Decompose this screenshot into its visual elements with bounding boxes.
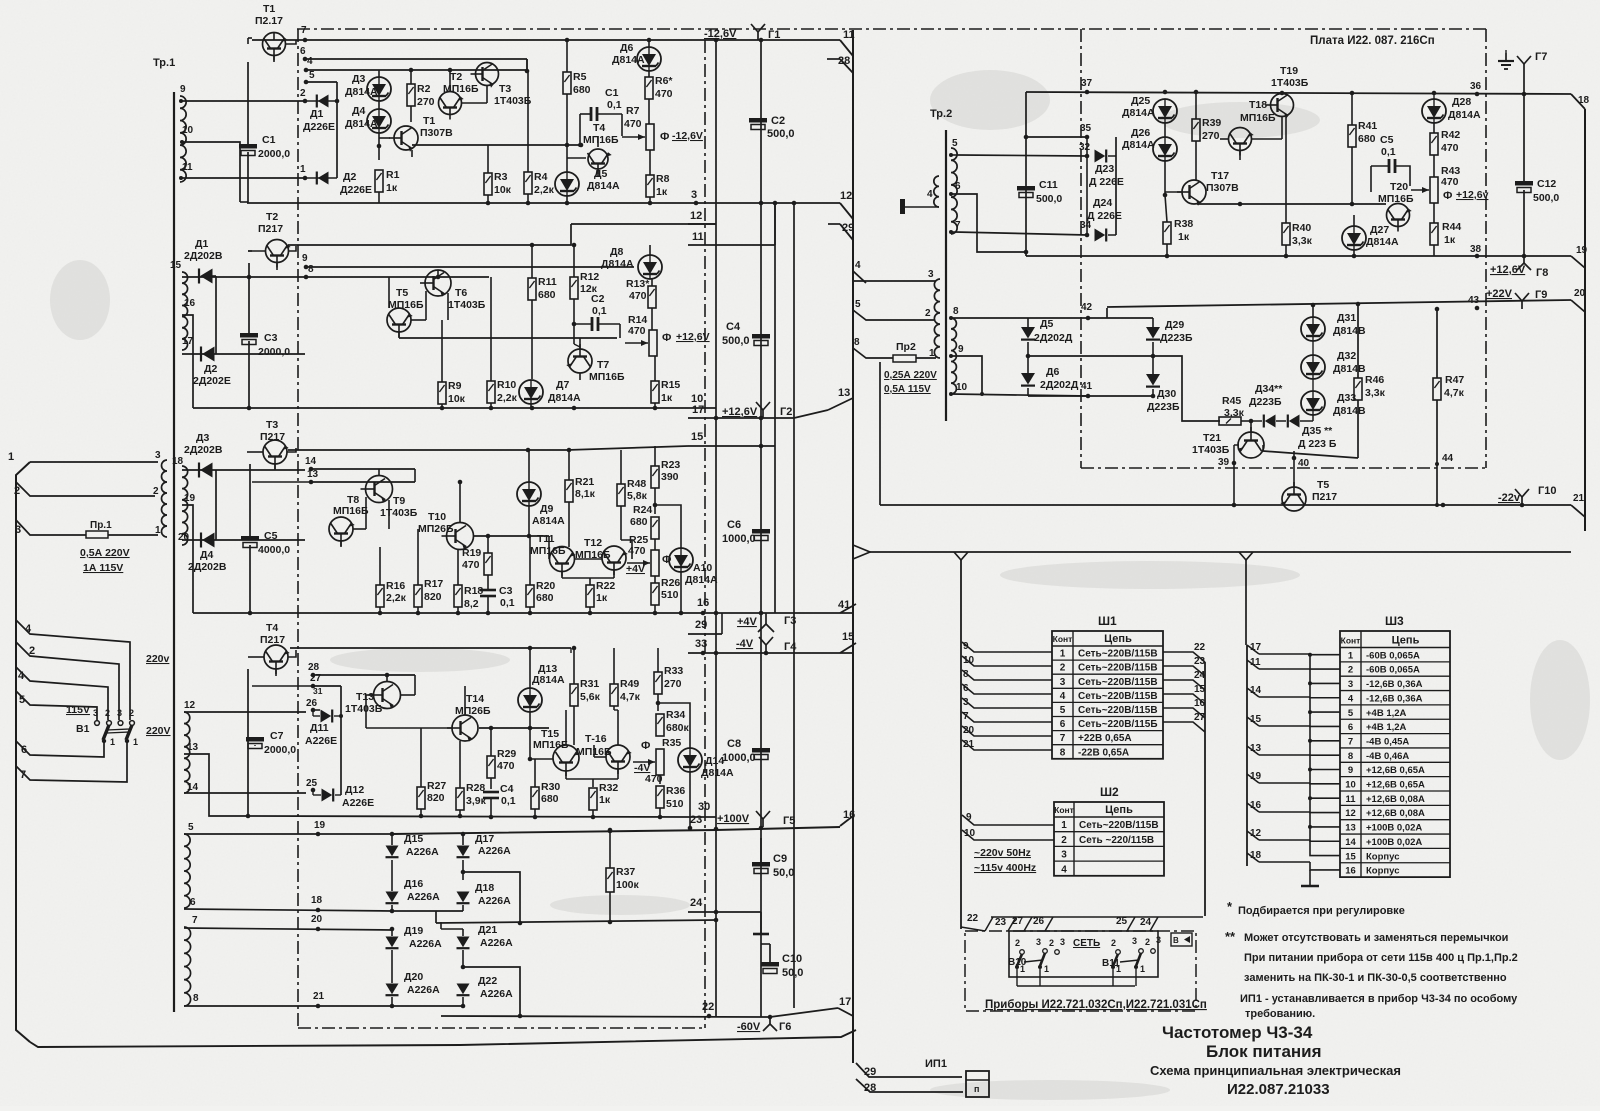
svg-text:+22V: +22V xyxy=(1486,288,1513,300)
svg-text:17: 17 xyxy=(692,404,704,416)
diode D2 2D202E xyxy=(193,347,231,388)
svg-text:Д12: Д12 xyxy=(345,784,364,796)
wire Sh3 rows5-6 xyxy=(1259,697,1340,726)
selector tie bar xyxy=(107,729,129,733)
label F +4V xyxy=(626,554,671,575)
D14 wires xyxy=(688,772,693,830)
wire t9 xyxy=(949,354,982,394)
bridge mid rail xyxy=(436,918,718,926)
wire tp3 xyxy=(853,280,936,282)
svg-text:3: 3 xyxy=(1036,937,1041,947)
svg-text:А226Е: А226Е xyxy=(342,797,374,809)
svg-text:R28: R28 xyxy=(466,782,485,794)
svg-text:22: 22 xyxy=(1194,642,1206,653)
zener D26 D814A xyxy=(1122,127,1177,161)
terminal G4 fork xyxy=(759,637,773,653)
svg-text:3,3к: 3,3к xyxy=(1365,387,1386,399)
svg-text:5: 5 xyxy=(1348,708,1354,719)
svg-text:3: 3 xyxy=(963,697,969,708)
D13 wires xyxy=(528,646,533,762)
svg-text:22: 22 xyxy=(702,1001,714,1013)
T7 wires xyxy=(574,324,580,380)
rail pin11 xyxy=(688,203,775,245)
block C top rail xyxy=(288,446,688,452)
svg-text:Д 226Е: Д 226Е xyxy=(1089,176,1124,188)
svg-text:А226А: А226А xyxy=(409,938,442,950)
svg-text:Д223Б: Д223Б xyxy=(1160,332,1193,344)
svg-text:Д814В: Д814В xyxy=(1333,363,1366,375)
transistor T7 MP16B xyxy=(566,344,625,383)
svg-text:2: 2 xyxy=(1061,835,1067,846)
diode bus right xyxy=(1087,137,1116,235)
svg-text:0,25А 220V: 0,25А 220V xyxy=(884,370,937,381)
chevron pin 20 xyxy=(1571,288,1586,312)
svg-text:+12,6В 0,65А: +12,6В 0,65А xyxy=(1366,765,1425,776)
SET icon box xyxy=(1171,933,1192,946)
svg-text:Д814А: Д814А xyxy=(1448,109,1481,121)
rail pin24 xyxy=(688,897,761,914)
svg-text:Т21: Т21 xyxy=(1203,432,1221,444)
T17 wires xyxy=(1165,192,1196,204)
svg-text:R19: R19 xyxy=(462,547,481,559)
pin 2 wire xyxy=(14,482,155,497)
label -12.6V xyxy=(704,28,737,40)
right mid wire xyxy=(1197,202,1386,207)
svg-text:+12,6В 0,08А: +12,6В 0,08А xyxy=(1366,808,1425,819)
capacitor C3 2000.0 xyxy=(240,332,290,358)
fuse Pr1 xyxy=(86,520,158,538)
svg-text:12: 12 xyxy=(1345,808,1356,819)
svg-text:27: 27 xyxy=(310,673,322,684)
svg-text:10к: 10к xyxy=(494,184,512,196)
input connector bracket xyxy=(16,462,30,1042)
svg-text:Д7: Д7 xyxy=(556,379,569,391)
wire Sh1 pin7 xyxy=(962,711,1052,722)
wire Sh3 rows3-4 xyxy=(1259,669,1340,698)
svg-text:3: 3 xyxy=(155,450,161,461)
svg-text:29: 29 xyxy=(695,619,707,631)
svg-text:Д6: Д6 xyxy=(1046,366,1059,378)
svg-text:Цепь: Цепь xyxy=(1104,633,1132,645)
wire Sh3 rows15-15 xyxy=(1259,840,1340,856)
svg-text:-4В 0,46А: -4В 0,46А xyxy=(1366,751,1409,762)
transistor T8 MP16B xyxy=(329,494,369,546)
svg-text:2: 2 xyxy=(1049,938,1054,948)
transistor T1 P307V xyxy=(389,115,453,152)
svg-text:Д18: Д18 xyxy=(475,882,494,894)
svg-text:12: 12 xyxy=(840,190,852,202)
svg-text:1: 1 xyxy=(155,525,161,536)
transistor T18 MP16B xyxy=(1229,99,1276,156)
svg-text:Сеть~220В/115В: Сеть~220В/115В xyxy=(1079,820,1159,831)
svg-text:-12,6V: -12,6V xyxy=(672,130,703,142)
svg-text:13: 13 xyxy=(307,469,319,480)
svg-text:+4В 1,2А: +4В 1,2А xyxy=(1366,722,1407,733)
diode D2 D226E xyxy=(305,171,372,196)
svg-text:1: 1 xyxy=(1060,649,1066,660)
svg-text:1: 1 xyxy=(1061,820,1067,831)
svg-text:22: 22 xyxy=(967,913,979,924)
transistor T15 MP16B xyxy=(533,728,580,776)
svg-text:Д5: Д5 xyxy=(1040,318,1053,330)
svg-text:11: 11 xyxy=(1345,794,1356,805)
svg-text:44: 44 xyxy=(1442,453,1454,464)
T16 wires xyxy=(566,710,618,787)
svg-text:115V: 115V xyxy=(66,704,90,716)
svg-text:МП16Б: МП16Б xyxy=(533,739,569,751)
svg-text:18: 18 xyxy=(1250,850,1262,861)
svg-text:1: 1 xyxy=(110,737,115,747)
svg-text:Сеть~220В/115Б: Сеть~220В/115Б xyxy=(1078,719,1158,730)
Tr1 primary 3-2-1 xyxy=(153,450,167,537)
svg-text:27: 27 xyxy=(1194,712,1206,723)
wire t6 xyxy=(949,192,1028,254)
svg-text:Д24: Д24 xyxy=(1093,197,1112,209)
svg-text:100к: 100к xyxy=(616,879,640,891)
svg-text:1: 1 xyxy=(1044,964,1049,974)
svg-text:500,0: 500,0 xyxy=(767,128,795,140)
wire w7 xyxy=(184,914,392,931)
svg-text:заменить на ПК-30-1 и ПК-30: заменить на ПК-30-1 и ПК-30-0,5 соответс… xyxy=(1244,972,1507,984)
wire Sh1 out16 xyxy=(1163,698,1206,718)
SET inner box xyxy=(1009,931,1158,977)
svg-text:Ф: Ф xyxy=(1443,190,1452,202)
svg-text:Д814В: Д814В xyxy=(1333,325,1366,337)
transformer Tr2 label xyxy=(930,108,952,120)
svg-text:~220v 50Hz: ~220v 50Hz xyxy=(974,847,1031,859)
bridge right out xyxy=(1153,356,1220,421)
SET outer box (dash-dot) xyxy=(965,931,1196,1011)
left plate right border (dash-dot) xyxy=(704,40,706,1028)
wire T2 collector rail xyxy=(448,68,453,92)
svg-text:1Т403Б: 1Т403Б xyxy=(380,507,418,519)
svg-text:3: 3 xyxy=(117,708,122,718)
svg-text:При питании прибора от сет: При питании прибора от сети 115в 400 ц П… xyxy=(1244,952,1518,964)
transistor T20 MP16B xyxy=(1378,181,1414,232)
diode bus D xyxy=(334,686,343,795)
svg-text:Д2: Д2 xyxy=(204,363,217,375)
svg-text:R45: R45 xyxy=(1222,395,1241,407)
svg-text:Т18: Т18 xyxy=(1249,99,1267,111)
svg-text:Г3: Г3 xyxy=(784,615,796,627)
svg-text:1: 1 xyxy=(1116,964,1121,974)
svg-text:СЕТЬ: СЕТЬ xyxy=(1073,938,1100,949)
svg-text:Т3: Т3 xyxy=(499,83,511,95)
wire Sh3 rows16-16 xyxy=(1259,862,1340,870)
svg-text:8: 8 xyxy=(1060,747,1066,758)
svg-text:680: 680 xyxy=(541,793,559,805)
svg-text:Д3: Д3 xyxy=(196,432,209,444)
svg-text:3,3к: 3,3к xyxy=(1224,407,1245,419)
wire Sh1 pin3 xyxy=(962,697,1052,708)
transistor T2 P217 xyxy=(258,211,291,268)
svg-text:С6: С6 xyxy=(727,519,741,531)
svg-text:С3: С3 xyxy=(264,332,278,344)
label +12.6V G8 xyxy=(1490,264,1548,279)
svg-text:С10: С10 xyxy=(782,953,802,965)
svg-text:Г4: Г4 xyxy=(784,641,797,653)
T4d wiring xyxy=(248,650,296,676)
node -12.6V bus xyxy=(714,38,764,43)
wire t8 xyxy=(949,316,1027,320)
svg-text:4,7к: 4,7к xyxy=(1444,387,1465,399)
rail +100V G5 xyxy=(608,814,764,833)
wire Sh1 pin6 xyxy=(962,683,1052,694)
T21 wires xyxy=(1234,421,1263,463)
pot R25 470 xyxy=(627,534,659,576)
svg-text:R24: R24 xyxy=(633,504,652,516)
zener D5 D814A xyxy=(555,168,620,196)
svg-text:Г2: Г2 xyxy=(780,406,792,418)
svg-text:R42: R42 xyxy=(1441,129,1460,141)
svg-text:С5: С5 xyxy=(264,530,278,542)
label +12.6V G2 xyxy=(722,406,792,418)
svg-text:Д223Б: Д223Б xyxy=(1147,401,1180,413)
chevron pin 11 xyxy=(840,29,855,56)
svg-text:Конт: Конт xyxy=(1341,636,1361,646)
chevron pin 17 harness xyxy=(838,996,853,1016)
svg-text:С12: С12 xyxy=(1537,178,1556,190)
fork down to Sh3 xyxy=(1239,552,1253,645)
Tr1 winding 15-16-17 xyxy=(170,260,196,350)
svg-text:R27: R27 xyxy=(427,780,446,792)
wire w17 xyxy=(182,353,305,355)
switch B10 levers xyxy=(1015,953,1049,974)
svg-text:R16: R16 xyxy=(386,580,405,592)
fuse Pr1 rating xyxy=(80,547,130,574)
block D top rail xyxy=(290,648,688,653)
svg-text:680: 680 xyxy=(536,592,554,604)
diode D3 2D202V xyxy=(184,432,223,478)
svg-text:А226А: А226А xyxy=(406,846,439,858)
svg-text:16: 16 xyxy=(1345,866,1356,877)
capacitor C4 500.0 xyxy=(722,321,770,347)
svg-text:270: 270 xyxy=(417,96,435,108)
svg-text:+22В 0,65А: +22В 0,65А xyxy=(1078,733,1132,744)
Tr2 screen winding xyxy=(927,176,939,207)
right vert C11 xyxy=(1025,92,1027,256)
svg-text:680: 680 xyxy=(630,516,648,528)
wire Sh3 pin15 xyxy=(1247,714,1262,726)
svg-text:R33: R33 xyxy=(664,665,683,677)
svg-text:Д14: Д14 xyxy=(705,755,724,767)
svg-text:18: 18 xyxy=(311,895,323,906)
svg-text:Д16: Д16 xyxy=(404,878,423,890)
wire Sh3 pin11 xyxy=(1247,657,1261,669)
svg-text:С1: С1 xyxy=(605,87,619,99)
capacitor C12 500.0 xyxy=(1515,94,1559,258)
svg-text:3: 3 xyxy=(1060,937,1065,947)
svg-text:0,1: 0,1 xyxy=(500,597,515,609)
wire Sh2 pin10 xyxy=(962,828,1054,840)
right plate bottom border (dash-dot) xyxy=(1081,467,1486,469)
svg-text:А226Е: А226Е xyxy=(305,735,337,747)
svg-text:МП26Б: МП26Б xyxy=(455,705,491,717)
svg-text:Д4: Д4 xyxy=(352,105,365,117)
label 115v 400Hz xyxy=(974,862,1036,874)
pin 1 wire xyxy=(8,451,158,463)
svg-text:Д8: Д8 xyxy=(610,246,623,258)
svg-text:17: 17 xyxy=(839,996,851,1008)
diode bus C xyxy=(215,470,217,540)
svg-text:Г5: Г5 xyxy=(783,815,795,827)
rail -12.6V (top) xyxy=(252,39,840,41)
svg-text:8: 8 xyxy=(193,993,199,1004)
chevron pin 28 xyxy=(827,55,853,73)
T2 collector rail xyxy=(288,224,688,245)
svg-text:Д814А: Д814А xyxy=(587,180,620,192)
svg-text:П307В: П307В xyxy=(420,127,453,139)
diode D34 D223B xyxy=(1249,383,1283,428)
svg-text:R12: R12 xyxy=(580,271,599,283)
svg-text:R39: R39 xyxy=(1202,117,1221,129)
svg-text:500,0: 500,0 xyxy=(722,335,750,347)
svg-text:Д814А: Д814А xyxy=(685,574,718,586)
svg-text:16: 16 xyxy=(1194,698,1206,709)
svg-text:470: 470 xyxy=(624,118,642,130)
svg-text:П217: П217 xyxy=(260,431,285,443)
terminal G7 xyxy=(1517,51,1547,94)
svg-text:Конт: Конт xyxy=(1054,805,1074,815)
svg-text:-12,6В 0,36А: -12,6В 0,36А xyxy=(1366,693,1423,704)
svg-text:20: 20 xyxy=(1574,288,1586,299)
diode D17 A226A xyxy=(457,832,512,858)
svg-text:24: 24 xyxy=(690,897,703,909)
label +100V G5 xyxy=(717,813,795,827)
svg-text:35: 35 xyxy=(1080,123,1092,134)
svg-text:7: 7 xyxy=(955,220,961,231)
svg-text:Д26: Д26 xyxy=(1131,127,1150,139)
svg-text:19: 19 xyxy=(314,820,326,831)
Tr2 winding 5-6-7 xyxy=(951,138,961,234)
svg-text:510: 510 xyxy=(666,798,684,810)
svg-text:7: 7 xyxy=(301,25,307,36)
svg-text:Д25: Д25 xyxy=(1131,95,1150,107)
harness line right plate xyxy=(1584,109,1586,531)
svg-text:Ф: Ф xyxy=(660,131,669,143)
svg-text:Д 223 Б: Д 223 Б xyxy=(1298,438,1337,450)
svg-text:С2: С2 xyxy=(591,293,605,305)
svg-text:1: 1 xyxy=(8,451,14,463)
svg-text:25: 25 xyxy=(306,778,318,789)
R25 wire xyxy=(626,558,627,560)
T8-T9 wires xyxy=(341,469,415,547)
pin 7 wire xyxy=(16,741,127,782)
svg-text:2: 2 xyxy=(105,708,110,718)
capacitor C1b 0.1 xyxy=(578,87,622,147)
svg-text:7: 7 xyxy=(192,915,198,926)
resistor R12 12k xyxy=(570,243,599,327)
svg-text:Д4: Д4 xyxy=(200,549,213,561)
svg-text:9: 9 xyxy=(966,812,972,823)
svg-text:-4V: -4V xyxy=(736,638,754,650)
resistor R20 680 xyxy=(526,536,555,613)
svg-text:-4V: -4V xyxy=(634,762,650,774)
svg-text:18: 18 xyxy=(1578,95,1590,106)
transistor T17 P307V xyxy=(1177,170,1239,206)
svg-text:+4В 1,2А: +4В 1,2А xyxy=(1366,708,1407,719)
transistor T11 MP16B xyxy=(530,533,576,577)
svg-text:510: 510 xyxy=(661,589,679,601)
wire Sh1 out23 xyxy=(1163,656,1206,676)
wire w20 xyxy=(182,539,305,541)
left plate top border (dash-dot) xyxy=(297,28,705,30)
svg-text:И22.087.21033: И22.087.21033 xyxy=(1227,1081,1330,1098)
node 44 xyxy=(1435,453,1454,466)
C7 wires xyxy=(246,669,255,818)
svg-text:П2.17: П2.17 xyxy=(255,15,283,27)
svg-text:5: 5 xyxy=(1060,705,1066,716)
bus wire x=775 xyxy=(774,203,776,613)
svg-text:820: 820 xyxy=(424,591,442,603)
svg-text:50,0: 50,0 xyxy=(773,867,794,879)
title line2 xyxy=(1206,1042,1322,1061)
svg-text:7: 7 xyxy=(1348,736,1353,747)
diode D29 D223B xyxy=(1146,318,1193,358)
svg-text:Т1: Т1 xyxy=(263,3,275,15)
svg-text:Д814В: Д814В xyxy=(1333,405,1366,417)
wire w14 xyxy=(184,792,306,794)
svg-text:20: 20 xyxy=(178,532,190,543)
diode D12 A226E xyxy=(313,784,374,809)
pot R43 470 xyxy=(1410,165,1460,203)
svg-text:2: 2 xyxy=(1015,938,1020,948)
svg-text:28: 28 xyxy=(838,55,850,67)
svg-text:3: 3 xyxy=(1156,935,1161,945)
terminal G2 xyxy=(756,402,770,418)
svg-text:МП16Б: МП16Б xyxy=(589,371,625,383)
svg-text:20: 20 xyxy=(963,725,975,736)
svg-text:А226А: А226А xyxy=(480,988,513,1000)
svg-text:6: 6 xyxy=(963,683,969,694)
svg-text:33: 33 xyxy=(695,638,707,650)
svg-text:Корпус: Корпус xyxy=(1366,851,1399,862)
T14 wires xyxy=(341,686,549,728)
svg-text:МП16Б: МП16Б xyxy=(1378,193,1414,205)
svg-text:14: 14 xyxy=(1250,685,1262,696)
wire Sh3 pin14 xyxy=(1247,685,1262,697)
pin 4 wire xyxy=(16,620,130,720)
svg-text:11: 11 xyxy=(1250,657,1261,668)
chassis bar under C9 xyxy=(753,912,769,934)
svg-text:17: 17 xyxy=(1250,642,1262,653)
svg-text:1к: 1к xyxy=(386,182,398,194)
svg-text:10: 10 xyxy=(691,393,703,405)
resistor R16 2.2k xyxy=(376,547,407,613)
Sh3 left vert xyxy=(1246,645,1248,866)
chevron pin 19 xyxy=(1571,245,1588,268)
zener D3 D814A xyxy=(345,73,391,101)
transistor T14 MP26B xyxy=(447,693,491,742)
svg-text:С8: С8 xyxy=(727,738,741,750)
terminal G1 xyxy=(751,24,780,41)
svg-text:8: 8 xyxy=(953,306,959,317)
terminal G6 fork xyxy=(763,1017,777,1031)
node 28 xyxy=(308,662,415,677)
svg-text:4: 4 xyxy=(307,56,313,67)
svg-text:1к: 1к xyxy=(661,392,673,404)
svg-text:Т2: Т2 xyxy=(450,71,462,83)
svg-text:МП16Б: МП16Б xyxy=(530,545,566,557)
resistor R29 470 xyxy=(487,726,516,789)
svg-text:R34: R34 xyxy=(666,709,685,721)
svg-text:6: 6 xyxy=(1060,719,1066,730)
svg-text:820: 820 xyxy=(427,792,445,804)
resistor R47 4.7k xyxy=(1433,307,1465,507)
T11-T12 wires xyxy=(549,536,614,585)
wire w5 xyxy=(184,820,392,836)
svg-text:R22: R22 xyxy=(596,580,615,592)
